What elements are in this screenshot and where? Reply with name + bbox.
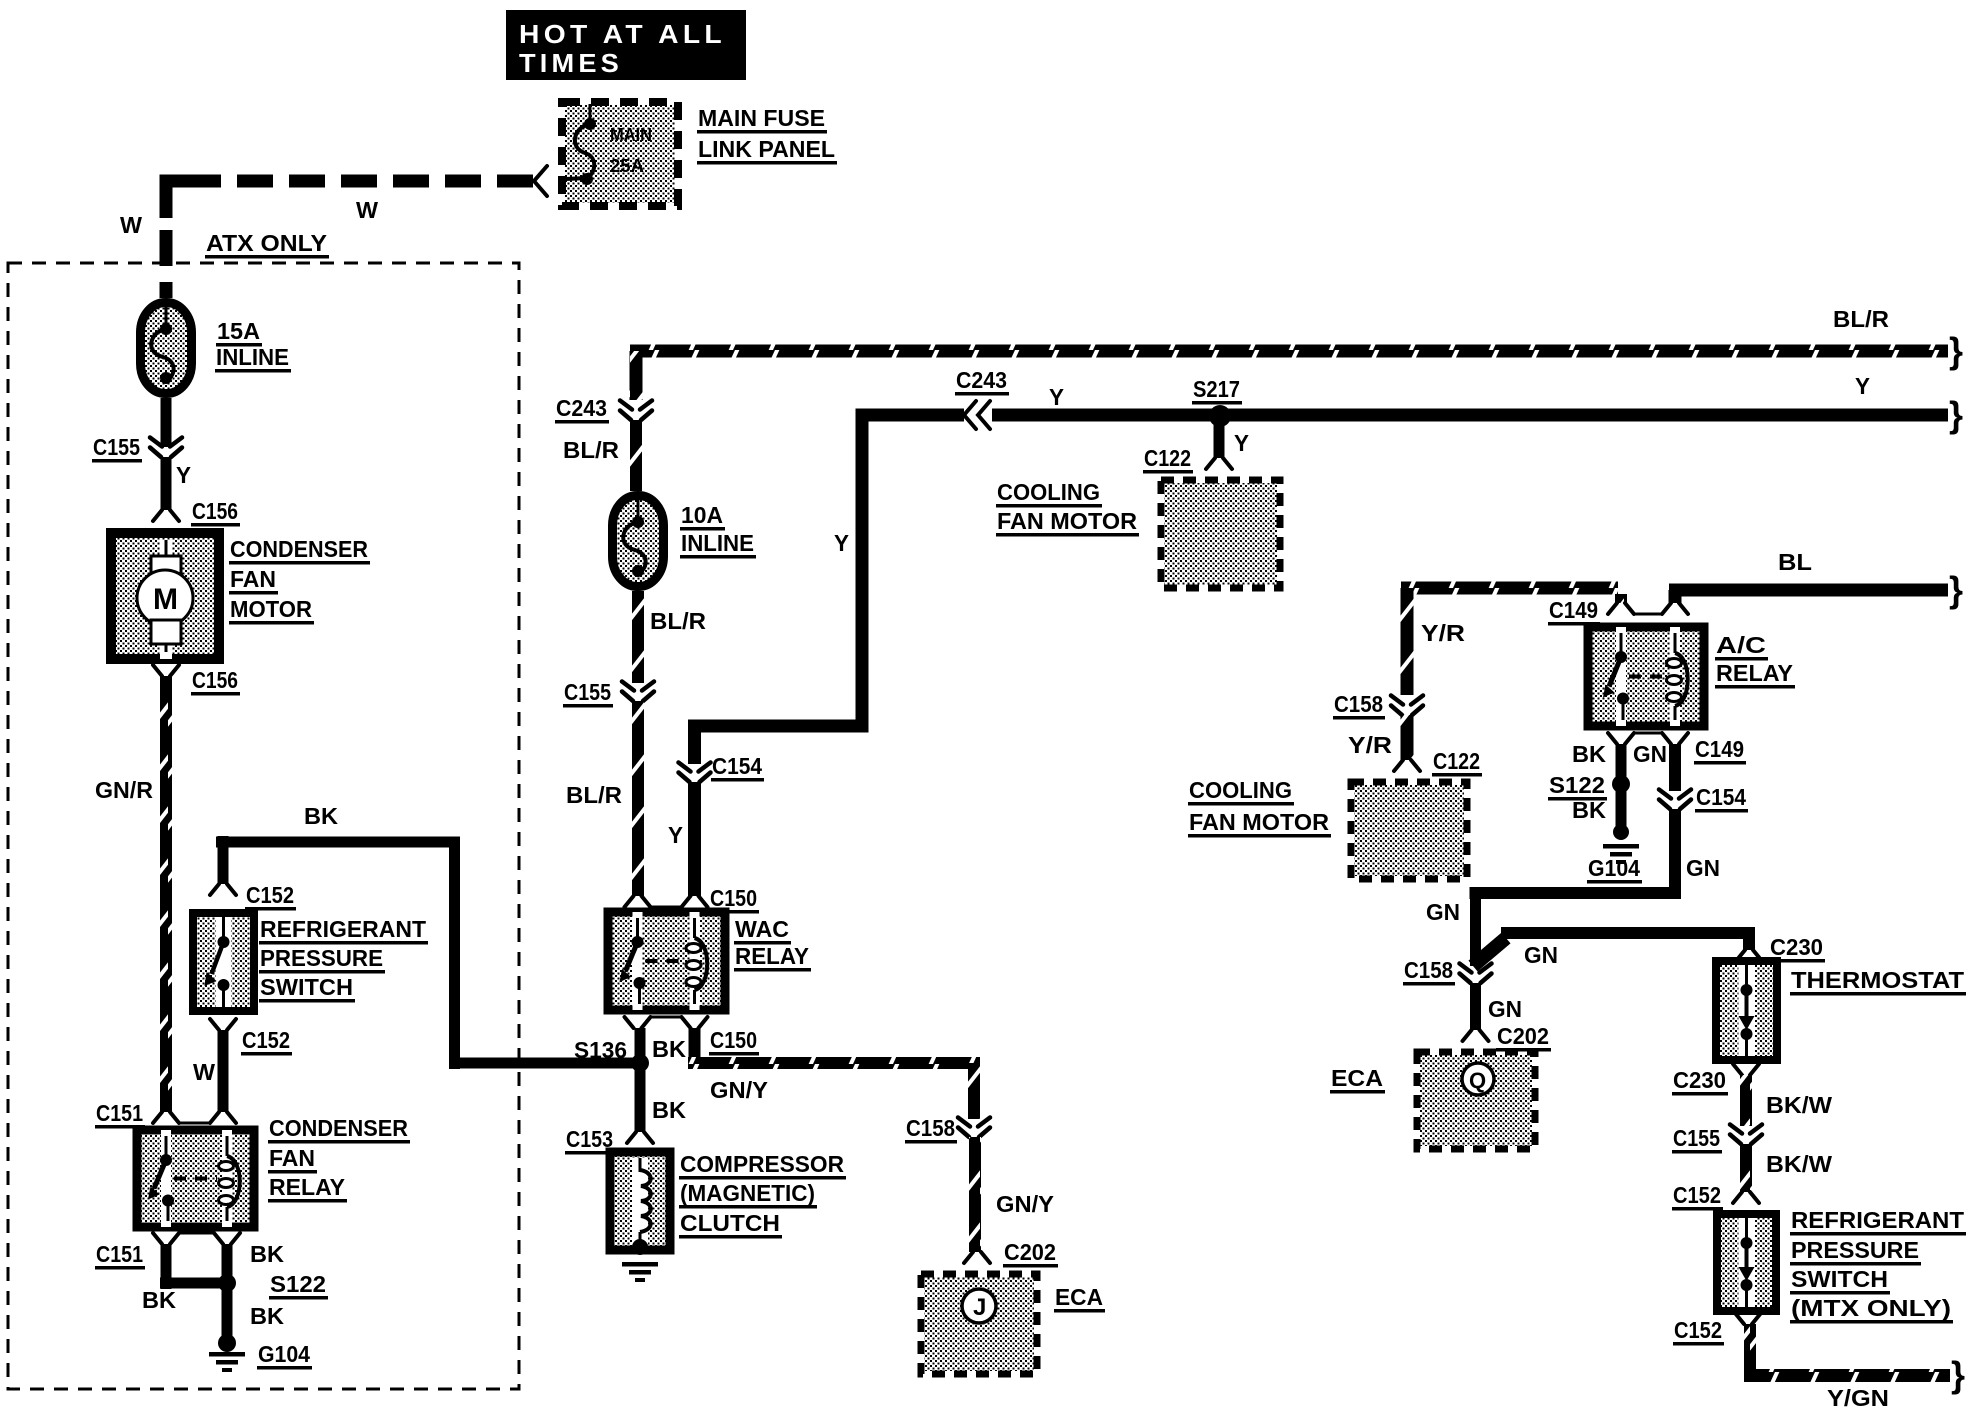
- label Y/R (upper): [1421, 620, 1465, 646]
- wire GN (C154 down to corner): [1669, 809, 1681, 899]
- wire BK (pin to S122): [1616, 744, 1627, 784]
- connector C158 (lower right): [1460, 964, 1492, 984]
- connector C150 (bottom pins): [625, 1017, 708, 1028]
- wire GN (vertical drop to C158): [1470, 887, 1481, 966]
- label ECA (right): [1330, 1065, 1385, 1094]
- splice S136: [631, 1054, 649, 1072]
- label C230 (below): [1672, 1067, 1728, 1096]
- svg-text:BK/W: BK/W: [1766, 1151, 1832, 1177]
- connector C158 (middle): [958, 1118, 990, 1138]
- svg-text:W: W: [120, 212, 142, 238]
- svg-text:BK: BK: [652, 1036, 686, 1062]
- svg-text:CLUTCH: CLUTCH: [680, 1210, 780, 1236]
- svg-text:J: J: [973, 1294, 986, 1321]
- svg-text:GN: GN: [1524, 942, 1558, 968]
- label THERMOSTAT: [1790, 967, 1966, 996]
- wire Y (C155 to C156): [161, 457, 172, 510]
- motor: COOLING FAN MOTOR (2): [1351, 782, 1467, 879]
- connector C153: [627, 1132, 653, 1143]
- svg-text:S136: S136: [574, 1037, 627, 1063]
- relay K2: WAC RELAY: [608, 912, 725, 1010]
- label S136: [573, 1037, 629, 1066]
- svg-text:C152: C152: [1674, 1317, 1722, 1343]
- svg-text:G104: G104: [1588, 855, 1640, 881]
- label C155 (middle): [563, 679, 613, 708]
- wire stub (C149 drop): [1615, 594, 1627, 603]
- svg-text:}: }: [1951, 1354, 1965, 1395]
- label C152 (below): [241, 1027, 292, 1056]
- svg-text:BL/R: BL/R: [563, 437, 619, 463]
- svg-text:GN: GN: [1633, 741, 1667, 767]
- label BK (right lower): [1572, 797, 1606, 823]
- svg-text:C158: C158: [1404, 957, 1453, 983]
- wire GN (upper horizontal): [1470, 887, 1682, 899]
- wire GN (horizontal to C230): [1501, 927, 1755, 939]
- label Y: [176, 462, 191, 488]
- svg-text:GN/Y: GN/Y: [996, 1191, 1054, 1217]
- svg-text:Y/R: Y/R: [1348, 732, 1392, 758]
- svg-text:BK: BK: [304, 803, 338, 829]
- svg-text:C158: C158: [1334, 691, 1383, 717]
- connector C155: [150, 438, 182, 458]
- connector C152 (to MTX switch): [1733, 1192, 1759, 1203]
- label Y (below S217): [1234, 430, 1249, 456]
- label C151 (bottom): [95, 1241, 145, 1270]
- label BK (below WAC): [652, 1036, 686, 1062]
- label GN (A/C relay): [1633, 741, 1667, 767]
- svg-text:GN: GN: [1488, 996, 1522, 1022]
- splice S122: [218, 1274, 236, 1292]
- svg-text:C149: C149: [1549, 597, 1598, 623]
- svg-text:INLINE: INLINE: [681, 530, 754, 556]
- svg-text:HOT AT ALL: HOT AT ALL: [519, 19, 726, 49]
- svg-text:Y: Y: [1234, 430, 1249, 456]
- label C149 (top): [1548, 597, 1600, 626]
- label GN/R: [95, 777, 153, 803]
- label 10A INLINE: [680, 502, 756, 559]
- svg-text:FAN MOTOR: FAN MOTOR: [997, 508, 1137, 534]
- svg-text:Y/GN: Y/GN: [1827, 1385, 1889, 1408]
- motor M1: CONDENSER FAN MOTOR: [111, 533, 219, 659]
- wire Y (drop to WAC relay): [688, 412, 869, 764]
- wire BK/W (C230 to C155): [1740, 1075, 1752, 1126]
- label C149 (bottom): [1694, 736, 1746, 765]
- wire (fuse to C155): [161, 398, 172, 447]
- svg-text:REFRIGERANT: REFRIGERANT: [1791, 1207, 1964, 1233]
- svg-text:GN/R: GN/R: [95, 777, 153, 803]
- svg-text:BL/R: BL/R: [566, 782, 622, 808]
- svg-text:INLINE: INLINE: [216, 344, 289, 370]
- svg-text:S122: S122: [1549, 772, 1605, 798]
- wire Y/GN (to bottom right): [1744, 1324, 1950, 1382]
- label BL/R (top right): [1833, 306, 1889, 332]
- svg-text:C152: C152: [242, 1027, 290, 1053]
- motor: COOLING FAN MOTOR (1): [1161, 480, 1280, 588]
- label COOLING FAN MOTOR (1): [996, 479, 1139, 537]
- svg-text:RELAY: RELAY: [269, 1174, 345, 1200]
- svg-text:BK: BK: [250, 1303, 284, 1329]
- svg-text:A/C: A/C: [1716, 632, 1766, 658]
- label COMPRESSOR (MAGNETIC) CLUTCH: [679, 1151, 846, 1239]
- svg-text:FAN: FAN: [269, 1145, 315, 1171]
- wire GN (pin to C154): [1669, 744, 1681, 791]
- wire BK (S122 to ground): [222, 1283, 233, 1341]
- svg-text:WAC: WAC: [735, 916, 789, 942]
- svg-text:MAIN: MAIN: [610, 125, 652, 145]
- label Y (right end): [1855, 373, 1870, 399]
- connector C230 (to thermostat): [1736, 950, 1762, 961]
- svg-text:S122: S122: [270, 1271, 326, 1297]
- label BK/W (upper): [1766, 1092, 1832, 1118]
- svg-text:COMPRESSOR: COMPRESSOR: [680, 1151, 844, 1177]
- switch: REFRIGERANT PRESSURE SWITCH (MTX ONLY): [1717, 1214, 1776, 1311]
- connector C230 (below thermostat): [1733, 1064, 1759, 1075]
- label BK (above C153): [652, 1097, 686, 1123]
- svg-text:RELAY: RELAY: [1716, 660, 1793, 686]
- label WAC RELAY: [734, 916, 811, 972]
- svg-text:MOTOR: MOTOR: [230, 596, 312, 622]
- splice S217: [1209, 405, 1231, 427]
- svg-text:C158: C158: [906, 1115, 955, 1141]
- fuse 10A INLINE: [613, 496, 664, 587]
- svg-text:C152: C152: [246, 882, 294, 908]
- connector C202 (to ECA): [964, 1252, 990, 1263]
- connector C151 (bottom pins): [153, 1233, 240, 1244]
- power label: HOT AT ALL TIMES: [506, 10, 746, 80]
- label COOLING FAN MOTOR (2): [1188, 777, 1331, 838]
- label Y (left of C243): [1049, 384, 1064, 410]
- svg-text:BK: BK: [1572, 797, 1606, 823]
- relay K3: A/C RELAY: [1588, 627, 1704, 726]
- relay K1: CONDENSER FAN RELAY: [137, 1130, 254, 1227]
- label Y (vertical drop): [834, 530, 849, 556]
- label A/C RELAY: [1715, 632, 1795, 689]
- label C152 (right bottom): [1673, 1317, 1724, 1346]
- ATX ONLY dashed boundary box: [8, 263, 519, 1389]
- label Y/GN: [1827, 1385, 1889, 1408]
- wire Y (S217 to C122): [1214, 415, 1225, 458]
- connector C156 (below motor): [153, 665, 179, 676]
- svg-text:FAN MOTOR: FAN MOTOR: [1189, 809, 1329, 835]
- label CONDENSER FAN MOTOR: [229, 536, 370, 625]
- wire GN (diagonal branch): [1473, 938, 1506, 966]
- svg-text:SWITCH: SWITCH: [1791, 1266, 1888, 1292]
- label BK (lower right): [250, 1303, 284, 1329]
- svg-text:SWITCH: SWITCH: [260, 974, 353, 1000]
- wire BL/R (C155 to WAC relay): [632, 701, 644, 896]
- wire BL (to A/C relay): [1669, 584, 1949, 604]
- svg-text:COOLING: COOLING: [1189, 777, 1292, 803]
- svg-text:Y/R: Y/R: [1421, 620, 1465, 646]
- svg-text:COOLING: COOLING: [997, 479, 1100, 505]
- label BK (A/C relay): [1572, 741, 1606, 767]
- svg-text:Y: Y: [834, 530, 849, 556]
- connector C243 (on Y wire): [964, 401, 992, 429]
- svg-text:15A: 15A: [217, 318, 260, 344]
- label C154 (right): [1695, 784, 1748, 813]
- label S217: [1192, 376, 1242, 405]
- wire BK (S122 to ground): [1616, 784, 1627, 832]
- svg-text:M: M: [153, 583, 178, 616]
- label C202: [1003, 1239, 1058, 1268]
- svg-text:C202: C202: [1004, 1239, 1056, 1265]
- connector at fuse panel (chevron): [534, 166, 547, 196]
- label G104 (right): [1587, 855, 1642, 884]
- fuse panel: MAIN FUSE LINK PANEL (MAIN 25A): [562, 102, 678, 206]
- label BK/W (lower): [1766, 1151, 1832, 1177]
- label C202 (right): [1496, 1023, 1551, 1052]
- svg-text:C150: C150: [710, 885, 757, 911]
- label GN (above C202): [1488, 996, 1522, 1022]
- svg-text:BK: BK: [652, 1097, 686, 1123]
- label G104: [257, 1341, 312, 1370]
- label C230 (top): [1769, 934, 1825, 963]
- label W (right): [356, 197, 378, 223]
- svg-text:(MTX ONLY): (MTX ONLY): [1791, 1295, 1951, 1321]
- svg-text:C156: C156: [192, 667, 238, 693]
- svg-text:Q: Q: [1469, 1068, 1486, 1093]
- svg-text:25A: 25A: [610, 156, 644, 176]
- svg-text:Y: Y: [668, 822, 683, 848]
- svg-text:Y: Y: [176, 462, 191, 488]
- svg-text:ATX ONLY: ATX ONLY: [206, 230, 327, 256]
- label C243 (on Y wire): [955, 367, 1009, 396]
- svg-text:TIMES: TIMES: [519, 48, 623, 78]
- label ATX ONLY: [205, 230, 329, 259]
- svg-text:C243: C243: [956, 367, 1007, 393]
- svg-text:RELAY: RELAY: [735, 943, 809, 969]
- label C156: [191, 498, 240, 527]
- svg-text:C230: C230: [1673, 1067, 1726, 1093]
- wire Y (main horizontal): [856, 409, 1949, 422]
- svg-text:BK: BK: [142, 1287, 176, 1313]
- label GN (small right): [1524, 942, 1558, 968]
- label GN/Y (vertical): [996, 1191, 1054, 1217]
- svg-text:GN/Y: GN/Y: [710, 1077, 768, 1103]
- svg-text:FAN: FAN: [230, 566, 276, 592]
- wire BL/R (fuse to C155): [632, 591, 644, 683]
- connector C122 (to motor): [1206, 458, 1232, 469]
- svg-text:REFRIGERANT: REFRIGERANT: [260, 916, 426, 942]
- compressor clutch: COMPRESSOR (MAGNETIC) CLUTCH: [610, 1152, 670, 1255]
- label ECA (middle): [1054, 1284, 1105, 1313]
- svg-text:C155: C155: [564, 679, 611, 705]
- switch: REFRIGERANT PRESSURE SWITCH: [193, 913, 254, 1011]
- svg-text:}: }: [1949, 394, 1963, 435]
- svg-text:ECA: ECA: [1331, 1065, 1383, 1091]
- connector C151 (pins into relay): [153, 1112, 236, 1123]
- label C151 (top): [95, 1100, 145, 1129]
- svg-text:BK: BK: [250, 1241, 284, 1267]
- connector C152 (below MTX switch): [1735, 1313, 1761, 1324]
- wire Y/R (horizontal to C149): [1401, 582, 1619, 696]
- label BK (right pin): [250, 1241, 284, 1267]
- label C155 (right): [1672, 1125, 1722, 1154]
- wire BL/R (top horizontal): [630, 345, 1949, 401]
- connector C154 (right): [1659, 790, 1691, 810]
- label C150 (bottom): [709, 1027, 759, 1056]
- svg-text:Y: Y: [1855, 373, 1870, 399]
- label BL: [1778, 549, 1812, 575]
- label C156 (below motor): [191, 667, 240, 696]
- svg-text:PRESSURE: PRESSURE: [1791, 1237, 1919, 1263]
- arrow (BL right end): [1949, 569, 1963, 610]
- svg-text:BL/R: BL/R: [650, 608, 706, 634]
- label MAIN FUSE LINK PANEL: [697, 105, 837, 165]
- ground G104: [209, 1334, 245, 1372]
- wire GN/Y (WAC to C158): [688, 1028, 980, 1119]
- label S122: [269, 1271, 328, 1300]
- connector C202 (right): [1463, 1030, 1489, 1041]
- svg-text:GN: GN: [1686, 855, 1720, 881]
- svg-text:C150: C150: [710, 1027, 757, 1053]
- label Y (above WAC): [668, 822, 683, 848]
- svg-text:S217: S217: [1193, 376, 1240, 402]
- wire W (dashed, fuse panel to 15A inline fuse): [160, 175, 534, 299]
- label BL/R (right of wire): [650, 608, 706, 634]
- connector C154 (middle): [679, 763, 711, 783]
- svg-text:(MAGNETIC): (MAGNETIC): [680, 1180, 815, 1206]
- label GN (left): [1426, 899, 1460, 925]
- label BK (top): [304, 803, 338, 829]
- svg-text:GN: GN: [1426, 899, 1460, 925]
- svg-text:C122: C122: [1144, 445, 1191, 471]
- svg-text:BK/W: BK/W: [1766, 1092, 1832, 1118]
- wire BK/W (C155 to C152): [1740, 1144, 1752, 1192]
- svg-text:C149: C149: [1695, 736, 1744, 762]
- svg-text:C154: C154: [1696, 784, 1746, 810]
- wire GN/Y (C158 to C202): [969, 1137, 981, 1252]
- connector C152 (below pressure switch): [210, 1019, 236, 1030]
- svg-text:MAIN FUSE: MAIN FUSE: [698, 105, 825, 131]
- thermostat: THERMOSTAT: [1716, 961, 1777, 1060]
- arrow (Y/GN right end): [1951, 1354, 1965, 1395]
- label REFRIGERANT PRESSURE SWITCH: [259, 916, 428, 1003]
- wire BK (left pin L to S122): [160, 1244, 222, 1289]
- ECA module (J): [921, 1274, 1037, 1374]
- connector C122 (right, to motor): [1394, 760, 1420, 771]
- label C154 (middle): [711, 753, 764, 782]
- svg-text:BL: BL: [1778, 549, 1812, 575]
- svg-text:CONDENSER: CONDENSER: [269, 1115, 408, 1141]
- label C122 (right): [1432, 748, 1482, 777]
- svg-text:Y: Y: [1049, 384, 1064, 410]
- label C158 (middle): [905, 1115, 957, 1144]
- connector C150 (top pins): [625, 896, 708, 907]
- ground (compressor clutch): [622, 1262, 658, 1282]
- label W (left): [120, 212, 142, 238]
- wire GN/R: [160, 676, 172, 1112]
- wire Y/R (C158 to C122): [1401, 715, 1414, 760]
- svg-text:PRESSURE: PRESSURE: [260, 945, 383, 971]
- label C150 (top): [709, 885, 759, 914]
- label C158 (lower right): [1403, 957, 1455, 986]
- label BL/R (lower): [566, 782, 622, 808]
- label REFRIGERANT PRESSURE SWITCH (MTX ONLY): [1790, 1207, 1966, 1324]
- label BK (lower left): [142, 1287, 176, 1313]
- svg-text:C151: C151: [96, 1100, 143, 1126]
- wire BK (right pin to S122): [222, 1244, 233, 1283]
- svg-text:10A: 10A: [681, 502, 723, 528]
- svg-text:C155: C155: [93, 434, 140, 460]
- connector C152 (above pressure switch): [210, 884, 236, 895]
- svg-text:C202: C202: [1497, 1023, 1549, 1049]
- svg-text:C156: C156: [192, 498, 238, 524]
- connector C149 (bottom pins): [1608, 733, 1688, 744]
- fuse 15A INLINE: [141, 303, 192, 394]
- svg-text:C230: C230: [1770, 934, 1823, 960]
- label C158 (right): [1333, 691, 1385, 720]
- svg-text:C243: C243: [556, 395, 607, 421]
- label W (wire): [193, 1059, 215, 1085]
- svg-text:C154: C154: [712, 753, 762, 779]
- ECA module (Q): [1417, 1052, 1535, 1149]
- ground G104 (right): [1603, 824, 1639, 864]
- wire BK (S136 to C153): [635, 1063, 646, 1132]
- label GN (mid): [1686, 855, 1720, 881]
- svg-text:G104: G104: [258, 1341, 310, 1367]
- arrow (Y right end): [1949, 394, 1963, 435]
- svg-text:C152: C152: [1673, 1182, 1721, 1208]
- wire W (switch to relay): [218, 1030, 229, 1112]
- label Y/R (lower): [1348, 732, 1392, 758]
- label GN/Y (horizontal): [710, 1077, 768, 1103]
- wire BK (WAC to S136): [635, 1028, 646, 1063]
- svg-text:}: }: [1949, 569, 1963, 610]
- wire BK (pressure switch to S136 splice): [216, 836, 640, 1069]
- label C122: [1143, 445, 1193, 474]
- connector C243: [620, 401, 652, 421]
- splice S122 (right): [1612, 775, 1630, 793]
- connector C156 (to motor): [153, 510, 179, 521]
- label C153: [565, 1126, 615, 1155]
- arrow (BL/R right end): [1949, 330, 1963, 371]
- svg-text:W: W: [193, 1059, 215, 1085]
- svg-text:LINK PANEL: LINK PANEL: [698, 136, 835, 162]
- label C243: [555, 395, 609, 424]
- svg-text:ECA: ECA: [1055, 1284, 1103, 1310]
- svg-text:CONDENSER: CONDENSER: [230, 536, 368, 562]
- svg-text:}: }: [1949, 330, 1963, 371]
- wire GN (stub to C230): [1743, 933, 1755, 950]
- label CONDENSER FAN RELAY: [268, 1115, 410, 1203]
- wire BL/R (C243 to fuse): [630, 420, 642, 491]
- connector C155 (middle): [622, 682, 654, 702]
- connector C149 (top pins): [1608, 603, 1688, 614]
- label C152 (above): [245, 882, 296, 911]
- svg-text:C151: C151: [96, 1241, 143, 1267]
- svg-text:C122: C122: [1433, 748, 1480, 774]
- label BL/R (below C243): [563, 437, 619, 463]
- label C155: [92, 434, 142, 463]
- svg-text:THERMOSTAT: THERMOSTAT: [1791, 967, 1964, 993]
- label S122 (right): [1548, 772, 1607, 801]
- wire Y (C154 to WAC relay): [688, 782, 701, 896]
- label 15A INLINE: [215, 318, 291, 373]
- svg-text:W: W: [356, 197, 378, 223]
- svg-text:C155: C155: [1673, 1125, 1720, 1151]
- label C152 (right top): [1672, 1182, 1723, 1211]
- wire GN (C158 to C202): [1470, 983, 1481, 1030]
- connector C155 (right): [1730, 1125, 1762, 1145]
- svg-text:BL/R: BL/R: [1833, 306, 1889, 332]
- connector C158 (right): [1391, 696, 1423, 716]
- svg-text:BK: BK: [1572, 741, 1606, 767]
